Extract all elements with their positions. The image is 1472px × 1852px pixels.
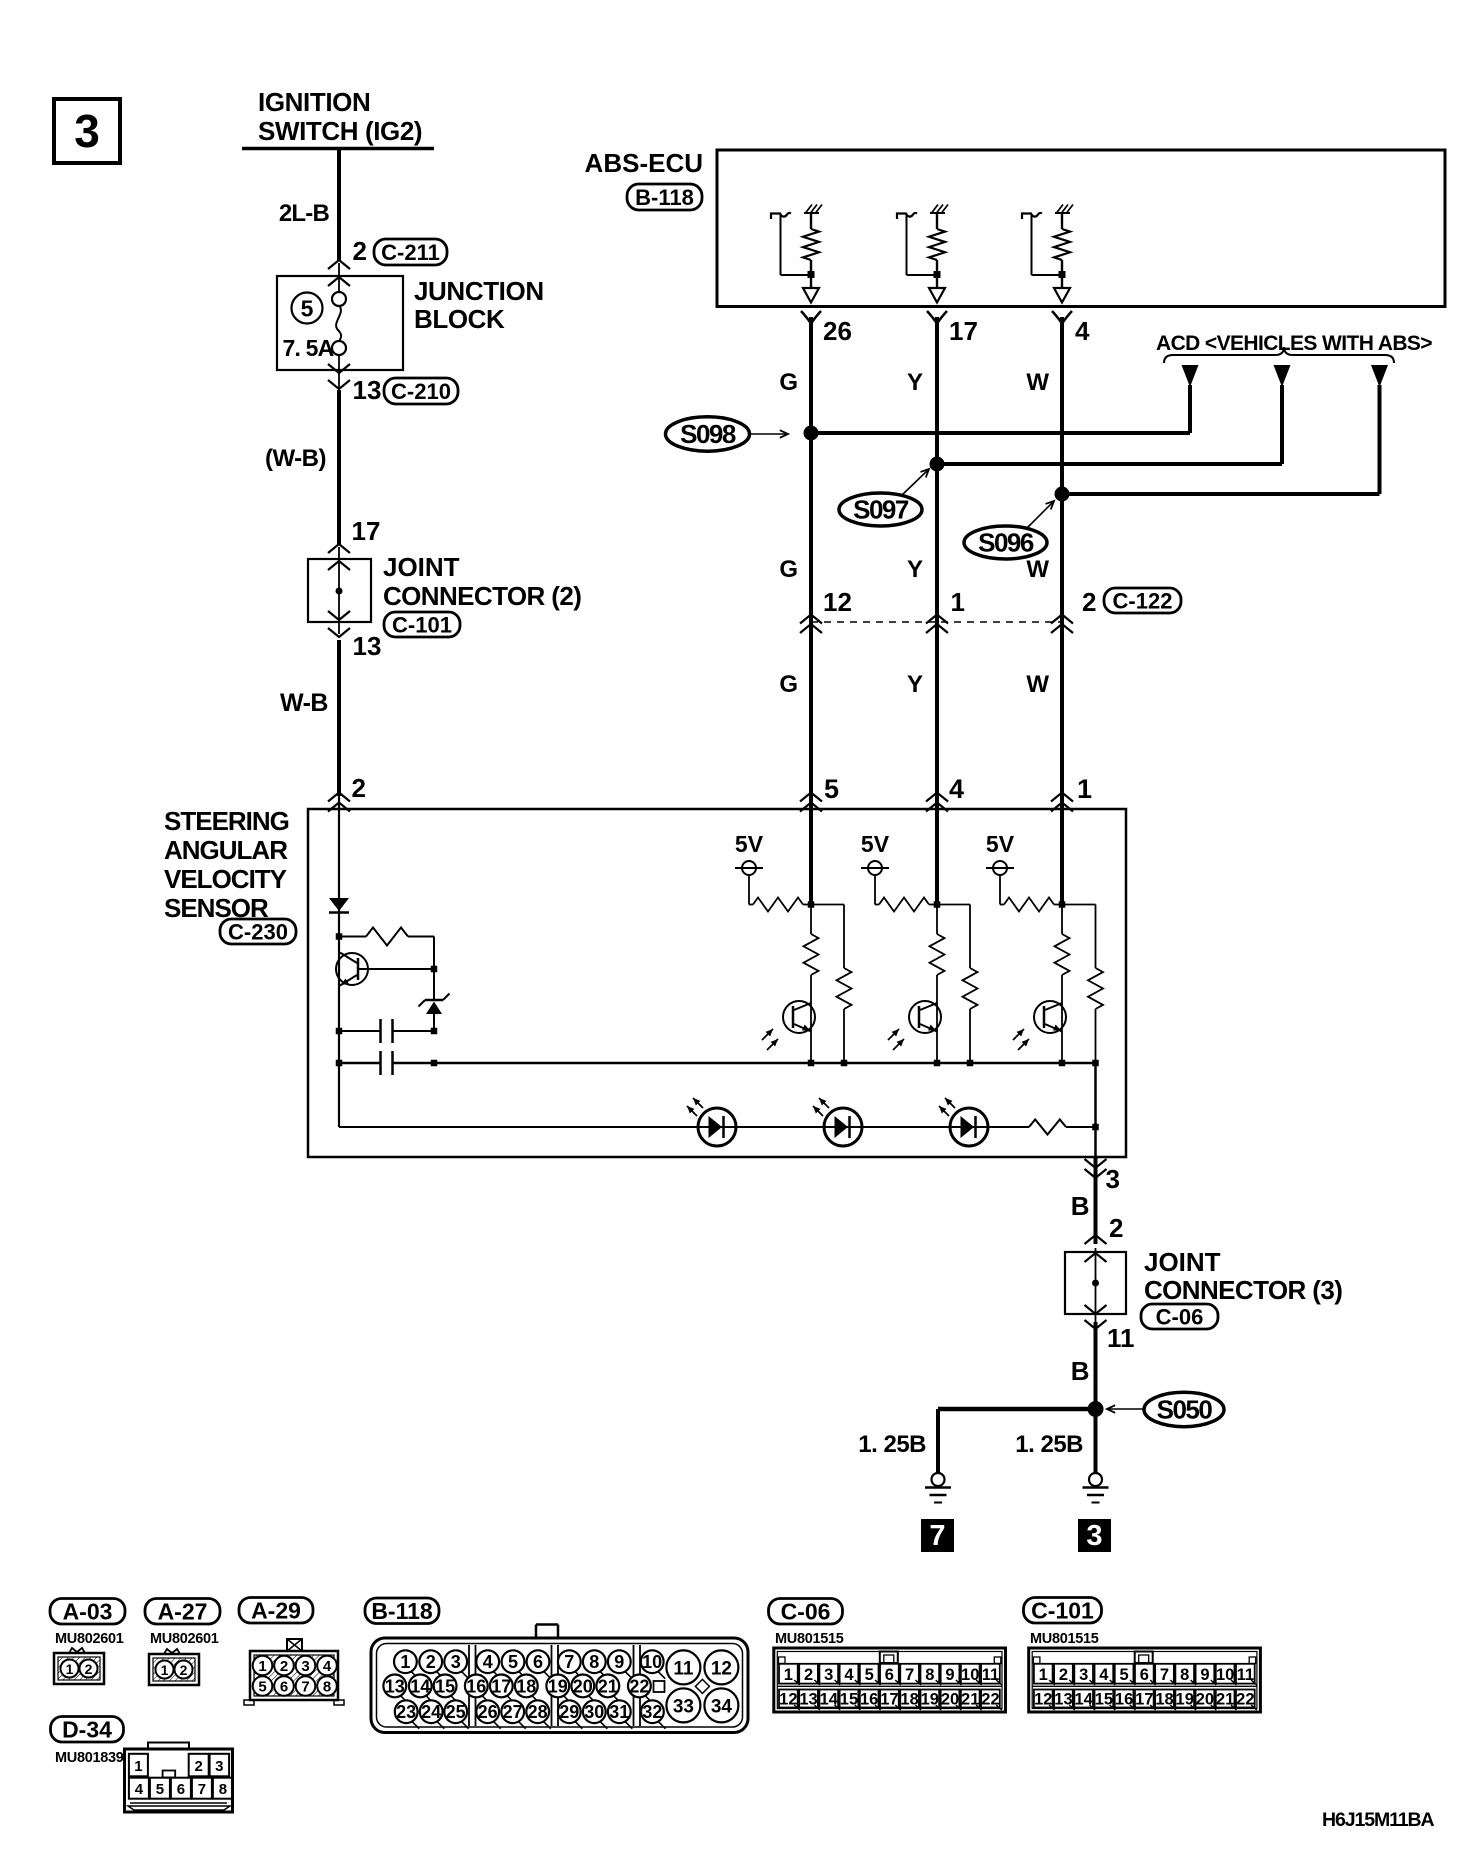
svg-text:MU801515: MU801515: [775, 1631, 844, 1647]
svg-text:29: 29: [559, 1702, 579, 1722]
svg-text:3: 3: [301, 1658, 309, 1675]
svg-text:26: 26: [823, 316, 852, 346]
svg-text:S096: S096: [978, 528, 1034, 558]
svg-text:2: 2: [1109, 1213, 1123, 1243]
svg-text:7: 7: [929, 1520, 945, 1552]
svg-text:3: 3: [824, 1666, 833, 1684]
svg-text:6: 6: [177, 1781, 185, 1798]
svg-text:B: B: [1071, 1191, 1090, 1221]
svg-text:4: 4: [135, 1781, 144, 1798]
svg-text:5V: 5V: [861, 831, 890, 857]
svg-text:C-06: C-06: [781, 1599, 831, 1625]
svg-text:6: 6: [280, 1679, 288, 1696]
svg-text:S050: S050: [1157, 1395, 1213, 1425]
svg-text:2: 2: [353, 236, 367, 266]
svg-text:23: 23: [396, 1702, 416, 1722]
svg-text:24: 24: [421, 1702, 441, 1722]
svg-text:CONNECTOR (3): CONNECTOR (3): [1144, 1275, 1342, 1305]
svg-text:IGNITION: IGNITION: [258, 87, 370, 117]
svg-text:6: 6: [533, 1652, 543, 1672]
svg-text:A-27: A-27: [158, 1599, 208, 1625]
svg-text:32: 32: [642, 1702, 662, 1722]
svg-text:5: 5: [258, 1679, 266, 1696]
svg-text:2: 2: [180, 1662, 188, 1678]
svg-text:B-118: B-118: [371, 1598, 433, 1624]
svg-text:7: 7: [564, 1652, 574, 1672]
svg-text:5: 5: [508, 1652, 518, 1672]
svg-text:11: 11: [1107, 1323, 1135, 1353]
svg-text:17: 17: [949, 316, 978, 346]
svg-text:20: 20: [573, 1676, 593, 1696]
svg-text:17: 17: [352, 516, 381, 546]
svg-text:2: 2: [195, 1758, 203, 1775]
svg-text:7. 5A: 7. 5A: [283, 335, 334, 361]
svg-text:13: 13: [353, 375, 382, 405]
svg-text:8: 8: [589, 1652, 599, 1672]
svg-text:8: 8: [1180, 1666, 1189, 1684]
svg-text:BLOCK: BLOCK: [414, 304, 505, 334]
svg-text:33: 33: [673, 1696, 694, 1717]
svg-text:7: 7: [198, 1781, 206, 1798]
svg-text:Y: Y: [907, 369, 923, 396]
svg-text:W-B: W-B: [280, 689, 328, 717]
svg-text:5: 5: [865, 1666, 874, 1684]
svg-text:4: 4: [844, 1666, 854, 1684]
svg-text:4: 4: [483, 1652, 493, 1672]
svg-text:4: 4: [323, 1658, 332, 1675]
svg-text:CONNECTOR (2): CONNECTOR (2): [383, 581, 581, 611]
svg-text:2: 2: [804, 1666, 813, 1684]
svg-text:8: 8: [219, 1781, 227, 1798]
svg-text:C-211: C-211: [381, 240, 440, 265]
svg-text:2: 2: [85, 1661, 93, 1677]
svg-text:2: 2: [1059, 1666, 1068, 1684]
svg-text:ABS-ECU: ABS-ECU: [585, 148, 703, 178]
svg-text:1: 1: [951, 587, 965, 617]
svg-text:MU802601: MU802601: [55, 1631, 124, 1647]
svg-text:9: 9: [945, 1666, 954, 1684]
svg-text:MU801839: MU801839: [55, 1750, 124, 1766]
svg-text:6: 6: [1140, 1666, 1149, 1684]
svg-text:B: B: [1071, 1356, 1090, 1386]
svg-text:1: 1: [66, 1661, 74, 1677]
svg-text:16: 16: [466, 1676, 486, 1696]
svg-text:21: 21: [598, 1676, 618, 1696]
svg-text:1: 1: [784, 1666, 793, 1684]
svg-text:W: W: [1026, 556, 1049, 583]
svg-text:2L-B: 2L-B: [279, 200, 330, 227]
svg-text:28: 28: [528, 1702, 548, 1722]
svg-text:12: 12: [711, 1658, 732, 1679]
svg-text:5: 5: [824, 774, 839, 804]
svg-text:18: 18: [516, 1676, 536, 1696]
svg-text:1: 1: [400, 1652, 410, 1672]
svg-text:2: 2: [1082, 587, 1096, 617]
svg-text:W: W: [1026, 671, 1049, 698]
svg-text:2: 2: [426, 1652, 436, 1672]
svg-text:W: W: [1026, 369, 1049, 396]
svg-text:5: 5: [301, 296, 314, 322]
svg-text:SWITCH (IG2): SWITCH (IG2): [258, 116, 422, 146]
svg-text:JOINT: JOINT: [383, 552, 460, 582]
svg-text:MU801515: MU801515: [1030, 1631, 1099, 1647]
svg-text:15: 15: [435, 1676, 455, 1696]
svg-text:MU802601: MU802601: [150, 1631, 219, 1647]
svg-text:11: 11: [673, 1658, 694, 1679]
svg-text:1: 1: [1039, 1666, 1048, 1684]
svg-text:26: 26: [478, 1702, 498, 1722]
svg-text:2: 2: [352, 773, 366, 803]
svg-text:13: 13: [353, 631, 382, 661]
svg-text:19: 19: [548, 1676, 568, 1696]
svg-text:(W-B): (W-B): [265, 445, 326, 472]
svg-text:4: 4: [1099, 1666, 1109, 1684]
svg-text:7: 7: [301, 1679, 309, 1696]
svg-text:6: 6: [885, 1666, 894, 1684]
svg-text:4: 4: [949, 774, 964, 804]
svg-text:5V: 5V: [986, 831, 1015, 857]
svg-text:3: 3: [1086, 1520, 1102, 1552]
svg-text:A-03: A-03: [63, 1599, 113, 1625]
svg-text:C-06: C-06: [1156, 1304, 1204, 1329]
svg-text:C-230: C-230: [228, 919, 288, 944]
svg-text:10: 10: [642, 1652, 662, 1672]
svg-text:B-118: B-118: [635, 185, 694, 210]
svg-text:G: G: [779, 671, 798, 698]
svg-text:8: 8: [925, 1666, 934, 1684]
svg-text:4: 4: [1075, 316, 1090, 346]
svg-text:C-122: C-122: [1113, 588, 1173, 613]
svg-text:3: 3: [215, 1758, 223, 1775]
svg-text:C-101: C-101: [392, 612, 452, 637]
svg-text:1. 25B: 1. 25B: [858, 1431, 926, 1458]
svg-text:ANGULAR: ANGULAR: [164, 835, 288, 865]
svg-text:Y: Y: [907, 556, 923, 583]
svg-text:8: 8: [323, 1679, 331, 1696]
svg-text:JUNCTION: JUNCTION: [414, 276, 544, 306]
svg-text:5: 5: [156, 1781, 164, 1798]
svg-text:3: 3: [1079, 1666, 1088, 1684]
svg-text:JOINT: JOINT: [1144, 1247, 1221, 1277]
svg-text:D-34: D-34: [62, 1717, 112, 1743]
svg-text:1: 1: [1077, 774, 1092, 804]
svg-text:G: G: [779, 369, 798, 396]
svg-text:H6J15M11BA: H6J15M11BA: [1322, 1809, 1435, 1831]
svg-text:1. 25B: 1. 25B: [1015, 1431, 1083, 1458]
svg-text:30: 30: [584, 1702, 604, 1722]
svg-text:34: 34: [711, 1696, 733, 1717]
svg-text:S098: S098: [680, 419, 736, 449]
svg-text:9: 9: [614, 1652, 624, 1672]
svg-text:C-101: C-101: [1031, 1598, 1094, 1624]
svg-text:3: 3: [74, 105, 100, 157]
svg-text:25: 25: [446, 1702, 466, 1722]
svg-text:17: 17: [491, 1676, 511, 1696]
svg-text:1: 1: [134, 1758, 142, 1775]
svg-text:3: 3: [1106, 1164, 1120, 1194]
svg-text:VELOCITY: VELOCITY: [164, 864, 287, 894]
svg-text:22: 22: [629, 1676, 649, 1696]
svg-text:7: 7: [1160, 1666, 1169, 1684]
svg-text:14: 14: [410, 1676, 430, 1696]
svg-text:5V: 5V: [735, 831, 764, 857]
svg-text:12: 12: [823, 587, 852, 617]
svg-text:5: 5: [1119, 1666, 1128, 1684]
svg-text:2: 2: [280, 1658, 288, 1675]
svg-text:1: 1: [161, 1662, 169, 1678]
svg-text:1: 1: [258, 1658, 266, 1675]
svg-text:ACD <VEHICLES WITH ABS>: ACD <VEHICLES WITH ABS>: [1156, 332, 1432, 355]
svg-text:27: 27: [503, 1702, 523, 1722]
svg-text:13: 13: [385, 1676, 405, 1696]
svg-text:31: 31: [609, 1702, 629, 1722]
svg-text:S097: S097: [853, 495, 909, 525]
svg-text:C-210: C-210: [391, 379, 451, 404]
svg-text:G: G: [779, 556, 798, 583]
svg-text:3: 3: [451, 1652, 461, 1672]
svg-text:A-29: A-29: [251, 1598, 301, 1624]
svg-text:Y: Y: [907, 671, 923, 698]
svg-text:STEERING: STEERING: [164, 806, 289, 836]
svg-text:7: 7: [905, 1666, 914, 1684]
svg-text:9: 9: [1200, 1666, 1209, 1684]
